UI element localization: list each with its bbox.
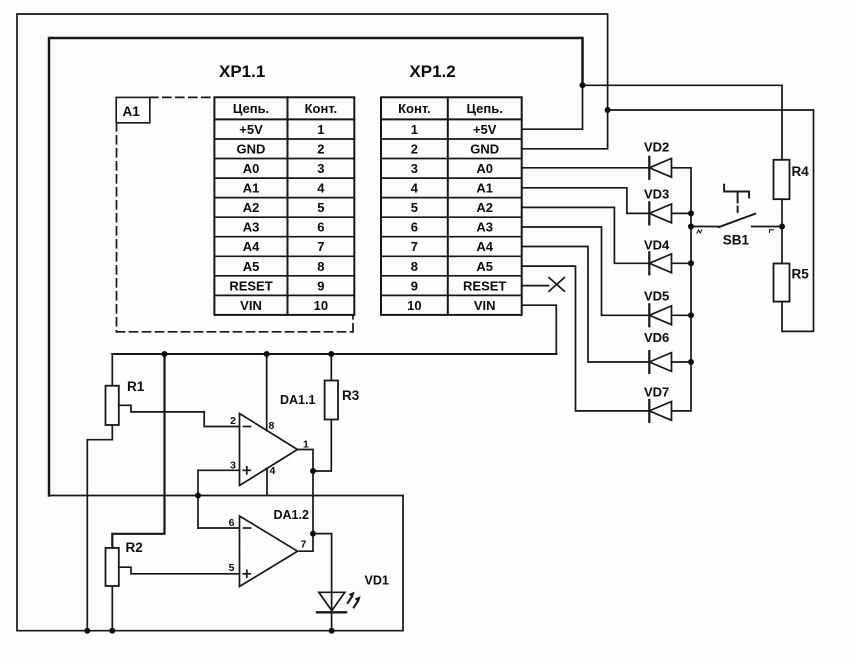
svg-text:8: 8 [269,420,275,432]
svg-text:7: 7 [301,539,307,551]
wire R4 to R5 [781,199,783,263]
svg-text:Конт.: Конт. [398,101,431,116]
svg-text:+5V: +5V [239,122,263,137]
wire A3 to VD5 [522,227,650,315]
svg-text:2: 2 [230,415,236,427]
wire R2 bottom lead [111,586,113,631]
diode VD3 [649,202,671,224]
svg-text:A4: A4 [476,239,493,254]
svg-text:A3: A3 [476,220,493,235]
resistor R4 [774,160,790,199]
svg-text:A0: A0 [476,161,493,176]
wire +5V top to R4 [583,85,783,160]
wire output node to VD1 [313,534,332,613]
resistor R2 [106,548,119,586]
svg-text:A2: A2 [243,200,260,215]
svg-text:3: 3 [230,460,236,472]
svg-text:DA1.2: DA1.2 [274,508,309,522]
resistor R1 [106,386,119,425]
svg-text:GND: GND [237,142,266,157]
svg-text:4: 4 [411,181,419,196]
svg-text:4: 4 [317,181,325,196]
SB1 contact mark right [770,230,774,233]
wire +5V from XP1.2 pin1 [522,85,583,129]
connector table XP1.2 [381,97,522,315]
svg-text:5: 5 [229,562,235,574]
wire SB1 branch from common [691,226,719,228]
svg-text:5: 5 [411,200,418,215]
wire pin3/pin6 input node [198,470,240,528]
svg-text:2: 2 [317,142,324,157]
switch SB1 [719,185,782,228]
svg-text:1: 1 [317,122,324,137]
svg-text:3: 3 [317,161,324,176]
connector table XP1.1 [214,97,354,315]
svg-text:1: 1 [411,122,418,137]
svg-text:VD7: VD7 [644,385,669,400]
svg-text:SB1: SB1 [723,233,750,248]
svg-text:10: 10 [407,298,421,313]
svg-text:A5: A5 [476,259,493,274]
node A1 designator box [116,97,150,122]
svg-text:10: 10 [314,298,328,313]
op-amp DA1.1 [240,414,298,486]
svg-text:A0: A0 [243,161,260,176]
diode VD2 [649,157,671,179]
wire A5 to VD7 [522,266,650,411]
svg-text:R4: R4 [792,164,810,179]
svg-text:VD5: VD5 [644,289,669,304]
wire VD4 to common [672,262,692,264]
svg-text:VD1: VD1 [365,574,389,588]
svg-text:4: 4 [270,465,276,477]
op-amp DA1.2 plus sign [243,570,250,577]
svg-text:8: 8 [317,259,324,274]
diode VD7 [649,400,671,422]
diode VD4 [649,252,671,274]
diode VD6 [649,351,671,373]
op-amp DA1.2 minus sign [244,527,251,529]
svg-text:A3: A3 [243,220,260,235]
svg-text:VIN: VIN [474,298,496,313]
svg-text:3: 3 [411,161,418,176]
svg-text:+5V: +5V [473,122,497,137]
wire R2 top jog to rail [112,354,164,548]
svg-text:DA1.1: DA1.1 [280,393,315,407]
wire GND from XP1.2 pin2 [522,110,608,149]
svg-text:5: 5 [317,200,324,215]
wire VD5 to common [672,314,692,316]
resistor R5 [774,264,790,302]
svg-text:VD6: VD6 [644,330,669,345]
svg-text:Цепь.: Цепь. [233,101,269,116]
wire GND top to right loop and R5 bottom [608,110,814,331]
svg-text:7: 7 [411,239,418,254]
wire outer GND loop border [17,14,608,631]
LED VD1 emission arrows [348,592,361,608]
svg-text:R3: R3 [342,388,360,403]
svg-text:7: 7 [317,239,324,254]
wire R3 bottom to output node [313,420,331,472]
svg-text:6: 6 [229,517,235,529]
svg-text:6: 6 [317,220,324,235]
resistor R3 [325,381,338,420]
svg-text:2: 2 [411,142,418,157]
svg-text:XP1.1: XP1.1 [219,62,265,81]
svg-text:6: 6 [411,220,418,235]
svg-text:R1: R1 [127,379,145,394]
svg-text:1: 1 [303,438,309,450]
wire pin4 power [266,468,268,495]
no-connect X mark [549,278,564,292]
wire VD3 to common [672,212,692,214]
wire R1 wiper tap to pin2 [119,405,240,426]
wire VD6 to common [672,361,692,363]
svg-text:VD4: VD4 [644,238,670,253]
svg-text:A5: A5 [243,259,260,274]
svg-text:RESET: RESET [463,278,506,293]
SB1 contact mark left [697,230,702,233]
LED VD1 [317,592,346,630]
wire inner +5V loop border [49,38,583,496]
wire DA1.1 output pin1 to DA1.2 output pin7 [298,450,314,552]
svg-text:A2: A2 [476,200,493,215]
svg-text:Цепь.: Цепь. [467,101,503,116]
wire R3 top lead [330,354,332,381]
svg-text:A1: A1 [123,104,141,119]
svg-text:GND: GND [470,142,499,157]
wire RESET no-connect [522,285,549,287]
svg-text:9: 9 [317,278,324,293]
svg-text:R5: R5 [792,267,810,282]
wire VIN down to opamp rail [522,305,557,354]
wire opamp top rail [112,353,556,355]
wire A1 to VD3 [522,188,650,214]
wire A2 to VD4 [522,207,650,263]
XP1.1 table text [229,101,337,313]
diode VD5 [649,304,671,326]
module A1 dashed box [117,97,354,331]
svg-text:XP1.2: XP1.2 [409,62,455,81]
op-amp DA1.1 minus sign [244,426,251,428]
wire R2 wiper tap to pin5 [119,567,240,574]
svg-text:VD2: VD2 [644,140,669,155]
wire A4 to VD6 [522,247,650,363]
svg-text:A1: A1 [243,181,260,196]
wire long horizontal net y=495.5 [49,495,403,497]
op-amp DA1.2 [240,516,298,587]
svg-text:VD3: VD3 [644,187,669,202]
XP1.2 table text [398,101,506,313]
op-amp DA1.1 plus sign [243,467,250,474]
wire A0 to VD2 [522,167,650,169]
svg-text:Конт.: Конт. [305,101,338,116]
svg-text:A1: A1 [476,181,493,196]
svg-text:R2: R2 [126,540,143,555]
svg-text:8: 8 [411,259,418,274]
svg-text:VIN: VIN [240,298,262,313]
svg-text:9: 9 [411,278,418,293]
svg-text:RESET: RESET [229,278,272,293]
wire R1 bottom to GND rail [87,425,112,631]
wire VD2 cathode-rail common vertical [672,168,692,411]
svg-text:A4: A4 [243,239,260,254]
wire pin8 power [266,354,268,431]
wire R1 top lead [111,354,113,386]
